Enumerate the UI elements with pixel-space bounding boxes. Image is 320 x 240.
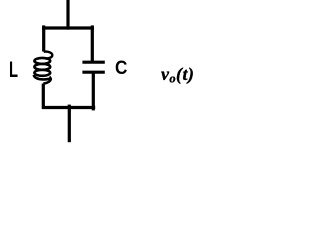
label C value	[115, 59, 127, 79]
wire right branch lower	[92, 72, 95, 110]
wire left branch lower	[42, 84, 45, 109]
wire right branch upper	[91, 28, 94, 62]
node B (right cap nub)	[91, 25, 94, 30]
node vo(t) output label	[161, 65, 194, 85]
wire top rail	[42, 26, 94, 29]
capacitor C1 top plate	[82, 61, 104, 64]
inductor L1 coil	[34, 52, 53, 84]
capacitor C1 bottom plate	[82, 71, 104, 74]
node A (left cap nub)	[42, 25, 45, 30]
wire bottom lead	[68, 105, 71, 143]
label L value	[9, 59, 18, 81]
wire left branch upper	[42, 28, 45, 52]
wire bottom rail	[42, 106, 95, 109]
wire top lead	[66, 0, 69, 30]
